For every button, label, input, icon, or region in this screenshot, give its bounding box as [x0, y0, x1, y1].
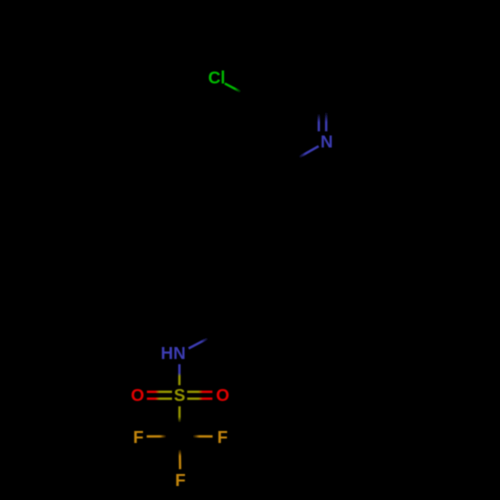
svg-text:HN: HN — [161, 343, 186, 363]
bond S=O right top line — [187, 391, 212, 393]
bond N1-C2 — [286, 146, 319, 165]
bond Cl-C4 — [225, 84, 245, 94]
svg-text:O: O — [216, 385, 229, 405]
bond C-F right — [180, 435, 213, 437]
bond HN-C chain — [189, 332, 221, 349]
bond N-S — [178, 364, 180, 385]
svg-text:F: F — [133, 427, 144, 447]
svg-text:O: O — [131, 385, 144, 405]
bond C-F bottom — [178, 436, 181, 469]
bond S=O left top line — [147, 391, 172, 393]
bond C-F left — [147, 435, 180, 437]
svg-text:N: N — [320, 132, 332, 152]
bond N1=C6 main line — [325, 94, 327, 132]
bond S=O right bottom line — [187, 398, 212, 400]
svg-text:S: S — [174, 385, 185, 405]
bond S=O left bottom line — [147, 398, 172, 400]
svg-text:F: F — [217, 427, 228, 447]
bond S-C — [178, 406, 180, 436]
svg-text:Cl: Cl — [208, 67, 225, 87]
bond N1=C6 inner double line — [318, 101, 320, 132]
svg-text:F: F — [175, 470, 186, 490]
